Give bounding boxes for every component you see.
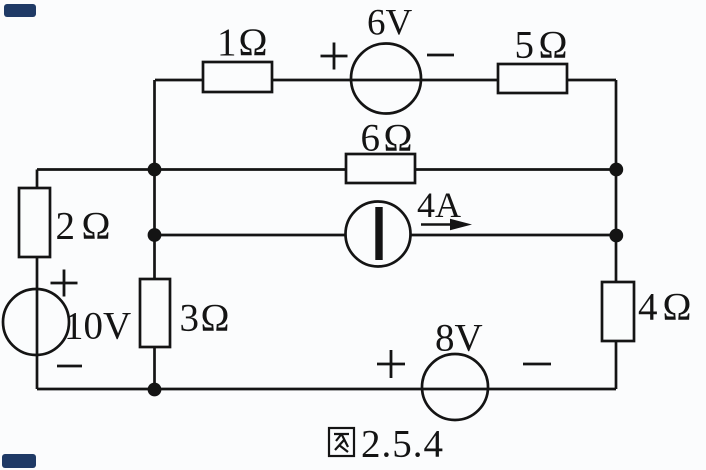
svg-text:10V: 10V <box>64 305 131 348</box>
svg-text:4A: 4A <box>417 185 461 225</box>
svg-text:3: 3 <box>180 297 200 340</box>
svg-text:8V: 8V <box>435 317 483 360</box>
svg-text:2.5.4: 2.5.4 <box>361 423 444 466</box>
svg-text:Ω: Ω <box>82 205 111 248</box>
svg-text:4: 4 <box>638 286 658 329</box>
svg-text:Ω: Ω <box>201 297 230 340</box>
svg-text:Ω: Ω <box>539 24 568 67</box>
svg-text:Ω: Ω <box>663 286 692 329</box>
svg-text:Ω: Ω <box>239 21 268 64</box>
svg-text:1: 1 <box>217 21 237 64</box>
svg-text:Ω: Ω <box>384 117 413 160</box>
svg-text:5: 5 <box>515 24 535 67</box>
svg-text:6V: 6V <box>367 3 413 44</box>
svg-text:6: 6 <box>361 117 381 160</box>
svg-text:2: 2 <box>56 205 76 248</box>
